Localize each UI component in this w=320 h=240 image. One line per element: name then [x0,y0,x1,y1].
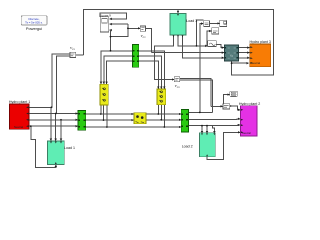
bus bar B2 (green, left) [78,110,86,130]
VG1 tag block [70,46,76,58]
wire bus1 left p2 to yellowA [104,56,133,84]
wire bus1 right p2 to yellowB [139,56,162,89]
svg-text:Ts = 5e-005 s.: Ts = 5e-005 s. [25,21,43,25]
svg-text:Yg: Yg [230,53,234,57]
wire teal neutral to orange [232,62,249,64]
wire load2 top C [213,126,215,134]
wire yellowB bottom3 [163,105,165,127]
wire load3 B to blockD [178,36,207,46]
wire bus1 left p1 to yellowA [101,51,132,84]
svg-text:Hydro plant 2: Hydro plant 2 [239,102,260,106]
wire long vert blockA feed [200,24,203,113]
wire bus1 right p3 to yellowB [139,61,159,88]
wire bus3 p1 rail [188,111,212,113]
wire yellowA bottom2 [103,105,105,120]
wire load1 C drop [60,120,62,141]
wire rail to load3 top [177,10,179,14]
VG3 tag block [174,77,180,89]
svg-text:Powergui: Powergui [26,26,42,31]
wire yellowC right p2 to bus3 [146,119,181,121]
wire yellowA bottom3 [106,105,108,127]
wire neutral staircase to load1 bottom [31,126,56,167]
wire teal out a to hydro3 [239,47,250,49]
wire VG2 tap [110,30,112,51]
svg-text:Neutral: Neutral [14,125,23,129]
wire bus3 p3 to hydro2 C [188,124,240,127]
wire vert to cluster [197,20,204,46]
wire scope9 loop [100,13,127,19]
wire scope9 input3 [109,29,112,31]
wire load2 bottom to hydro2 neutral [207,132,240,159]
wire VG1 output [76,54,84,56]
wire bus2 right p2 to yellowC [86,119,134,121]
wire VG1 input1 [52,54,70,107]
hydro plant 3 (orange) [250,40,271,67]
breaker B (yellow, vertical mid) [157,89,166,105]
wire load3 A to VG3 [154,36,174,80]
wire branch blockC [207,31,211,46]
wire teal out c to hydro3 [239,57,250,59]
svg-text:Load 3: Load 3 [186,19,197,23]
wire load2 top A [201,126,203,134]
wire yellowA bottom1 [100,105,102,114]
three-phase block (teal) [224,45,238,61]
wire VG2 output down [146,28,152,52]
load 3 [170,13,197,37]
wire blockD to teal a [216,44,224,47]
hydro plant 1 (red) [9,100,30,129]
wire load3 C to teal c [183,36,224,58]
svg-text:Hydro plant 1: Hydro plant 1 [9,100,30,104]
wire VG3 out1 [180,79,211,107]
wire bus3 p2 to hydro2 B [188,118,240,121]
wire block1 feed [223,95,229,104]
bus bar B3 (green, right) [181,110,188,133]
breaker A (yellow, vertical) [100,84,108,105]
load 1 [47,141,75,164]
wire VG1 input2 [56,56,69,114]
wire bus1 right p1 to yellowB [139,51,165,89]
block A (top cluster) [204,21,210,27]
block D (top cluster) [208,41,216,47]
hydro plant 2 (magenta) [239,102,260,136]
wire yellowB bottom1 [157,105,159,114]
wire yellowB bottom2 [160,105,162,120]
load 2 [182,133,216,157]
wire blockA to blockB [209,22,219,24]
bus bar B1 (green, top) [132,45,138,68]
wire block2 to hydro2 A [230,106,240,110]
wire bus2 right p1 to yellowC [86,113,134,115]
wire load1 A drop [50,107,52,140]
powergui block [21,16,47,32]
wire VG2 riser [111,24,128,36]
wire load1 B drop [55,114,57,141]
block C (top cluster) [212,28,219,34]
wire scope9 input2 [110,23,128,25]
wire bus2 right p3 to bus3 [86,126,181,128]
block 1 (bottom cluster, stacked bars) [230,91,237,96]
wire top rail [83,10,273,75]
svg-text:Neutral: Neutral [242,131,251,135]
wire red row1 [29,106,52,108]
wire yellowC right p1 to bus3 [146,113,181,115]
wire load2 top B [206,126,208,134]
wire red row2 to bus2 [29,113,78,115]
wire to block2 [211,105,223,107]
wire red neutral to bus2 [29,125,78,127]
wire red row3 to bus2 [29,119,78,121]
svg-text:Load 1: Load 1 [64,146,75,150]
wire VG2 input [128,27,140,29]
breaker C (yellow, horizontal) [134,113,146,124]
block 2 (bottom cluster) [223,104,232,109]
svg-text:Load 2: Load 2 [182,144,193,148]
block B (top cluster) [220,20,227,26]
wire teal out b to hydro3 [239,52,250,54]
wire VG3 out2 [180,80,213,112]
wire bus1 left p3 to yellowA [107,61,133,84]
svg-text:Neutral: Neutral [251,61,260,65]
VG2 tag block [140,26,146,39]
scope Scope9 [100,14,112,33]
wire to teal b [152,52,224,54]
